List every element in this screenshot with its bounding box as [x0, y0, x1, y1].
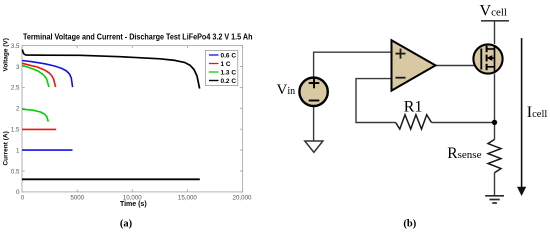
svg-text:Time (s): Time (s) [120, 201, 147, 208]
svg-text:1.3 C: 1.3 C [221, 69, 237, 76]
svg-text:0: 0 [16, 189, 20, 196]
svg-text:0.5: 0.5 [11, 168, 20, 175]
svg-text:Voltage (V): Voltage (V) [2, 38, 9, 71]
svg-text:1 C: 1 C [221, 61, 231, 68]
svg-text:Vin: Vin [277, 82, 296, 98]
svg-text:Terminal Voltage and Current -: Terminal Voltage and Current - Discharge… [23, 32, 253, 41]
svg-text:15,000: 15,000 [178, 194, 197, 201]
svg-text:3.5: 3.5 [11, 43, 20, 50]
svg-text:Current (A): Current (A) [2, 131, 9, 165]
svg-text:3: 3 [16, 64, 20, 71]
svg-text:0.6 C: 0.6 C [221, 52, 237, 59]
svg-text:2: 2 [16, 106, 20, 113]
svg-text:20,000: 20,000 [233, 194, 252, 201]
svg-text:R1: R1 [404, 98, 423, 115]
svg-text:(b): (b) [403, 218, 416, 229]
svg-text:(a): (a) [120, 218, 133, 229]
svg-text:1.5: 1.5 [11, 127, 20, 134]
svg-text:1: 1 [16, 147, 20, 154]
svg-text:2.5: 2.5 [11, 85, 20, 92]
svg-text:0.2 C: 0.2 C [221, 78, 237, 85]
svg-text:Vcell: Vcell [480, 3, 507, 20]
svg-text:5000: 5000 [70, 194, 84, 201]
svg-text:0: 0 [21, 194, 25, 201]
svg-text:Rsense: Rsense [447, 145, 481, 162]
svg-text:Icell: Icell [527, 104, 548, 121]
